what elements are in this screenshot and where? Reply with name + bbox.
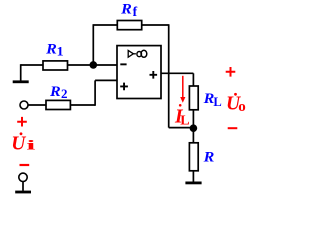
- svg-text:i: i: [26, 138, 36, 153]
- label IL (red, with dot): [174, 104, 190, 129]
- resistor R2: [46, 100, 70, 109]
- label RL: [203, 91, 222, 109]
- current arrow IL (red): [180, 76, 185, 103]
- svg-text:2: 2: [61, 86, 68, 101]
- node A (inverting input junction dot): [90, 61, 98, 69]
- wire riser to op-amp non-inverting input: [95, 79, 117, 81]
- wire from left ground to R1: [21, 64, 43, 66]
- svg-text:U: U: [11, 134, 26, 155]
- svg-text:o: o: [238, 99, 246, 115]
- input terminal circle (Ui +): [20, 101, 28, 109]
- wire from feedback corner to node B: [169, 127, 194, 129]
- wire from Rf right to feedback corner: [142, 24, 169, 26]
- label minus (Ui polarity): [20, 164, 30, 166]
- svg-text:R: R: [120, 1, 132, 17]
- svg-text:R: R: [45, 41, 57, 57]
- wire terminal to R2: [28, 104, 46, 106]
- wire from R1 to op-amp inverting input: [68, 64, 118, 66]
- svg-text:L: L: [213, 95, 221, 109]
- svg-text:R: R: [203, 149, 215, 165]
- label Rf: [120, 1, 138, 19]
- label R1: [45, 41, 64, 58]
- label R: [203, 149, 215, 165]
- op-amp output polarity label (plus): [150, 71, 158, 79]
- wire riser up to non-inverting input: [94, 80, 96, 105]
- svg-text:R: R: [49, 84, 61, 100]
- output wire from op-amp: [161, 72, 193, 74]
- label + (Ui polarity): [17, 117, 27, 127]
- wire R to ground: [192, 171, 194, 182]
- ground (bottom left): [15, 191, 31, 194]
- ground (below R): [185, 182, 201, 185]
- feedback wire down to bottom node: [168, 24, 170, 127]
- svg-text:L: L: [180, 114, 189, 129]
- node B (load junction dot): [190, 124, 198, 132]
- op-amp non-inverting input label (plus): [120, 83, 128, 91]
- wire RL to node B: [192, 110, 194, 143]
- label + (Uo polarity): [226, 67, 236, 77]
- wire R2 to riser: [70, 104, 95, 106]
- ground (left, at R1 input): [13, 64, 29, 83]
- resistor R1: [43, 61, 68, 70]
- input terminal circle (Ui -): [19, 173, 27, 181]
- label minus (Uo polarity): [228, 127, 238, 129]
- label Ui (red, with dot): [11, 132, 36, 154]
- wire from corner to Rf left: [93, 24, 118, 26]
- wire terminal to bottom ground: [22, 182, 24, 191]
- wire down to RL: [192, 73, 194, 86]
- op-amp U1 box: [117, 46, 161, 99]
- op-amp inverting input label (minus): [120, 63, 126, 65]
- resistor Rf: [117, 21, 141, 30]
- resistor R: [189, 143, 198, 171]
- svg-text:1: 1: [57, 45, 64, 59]
- wire from node A up to Rf: [92, 25, 94, 65]
- label Uo (red, with dot): [226, 93, 246, 115]
- op-amp gain symbol (triangle + infinity): [128, 50, 147, 57]
- resistor RL: [189, 86, 198, 110]
- label R2: [49, 84, 68, 101]
- svg-text:f: f: [133, 4, 138, 19]
